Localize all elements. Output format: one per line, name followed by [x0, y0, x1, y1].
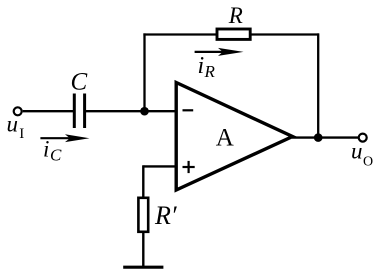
node at output — [314, 133, 323, 142]
wire feedback top left — [143, 33, 216, 35]
wire feedback vertical right — [317, 33, 319, 137]
op-amp A — [176, 83, 292, 191]
node at inverting input — [140, 107, 149, 116]
wire down to R' — [142, 165, 144, 198]
label u_I — [7, 112, 25, 143]
resistor R — [217, 29, 250, 39]
minus sign (inverting input) — [183, 109, 194, 111]
svg-text:i: i — [198, 53, 205, 79]
wire R' to ground — [142, 232, 144, 268]
input terminal u_I — [14, 107, 22, 115]
svg-text:I: I — [19, 126, 24, 142]
svg-text:u: u — [7, 112, 19, 137]
svg-text:i: i — [43, 137, 49, 162]
svg-text:R: R — [204, 62, 216, 81]
label i_R — [198, 53, 216, 81]
plus sign (non-inverting input) — [183, 161, 195, 173]
svg-text:O: O — [363, 155, 373, 170]
wire feedback vertical left — [143, 33, 145, 111]
svg-text:C: C — [50, 146, 62, 165]
wire non-inverting input horizontal — [143, 165, 177, 167]
current arrow i_C — [40, 134, 89, 142]
output terminal u_O — [359, 134, 367, 142]
capacitor C — [74, 94, 84, 129]
wire feedback top right — [251, 33, 320, 35]
svg-text:u: u — [351, 139, 363, 164]
wire output — [292, 136, 358, 138]
wire input to capacitor — [23, 110, 73, 112]
ground — [123, 266, 163, 269]
svg-text:R′: R′ — [154, 201, 177, 230]
resistor R' — [138, 198, 148, 232]
svg-text:A: A — [216, 124, 234, 151]
label u_O — [351, 139, 373, 170]
svg-text:C: C — [71, 69, 88, 96]
current arrow i_R — [195, 48, 244, 56]
label i_C — [43, 137, 62, 165]
svg-text:R: R — [228, 3, 243, 28]
wire capacitor to inverting input — [86, 110, 178, 112]
